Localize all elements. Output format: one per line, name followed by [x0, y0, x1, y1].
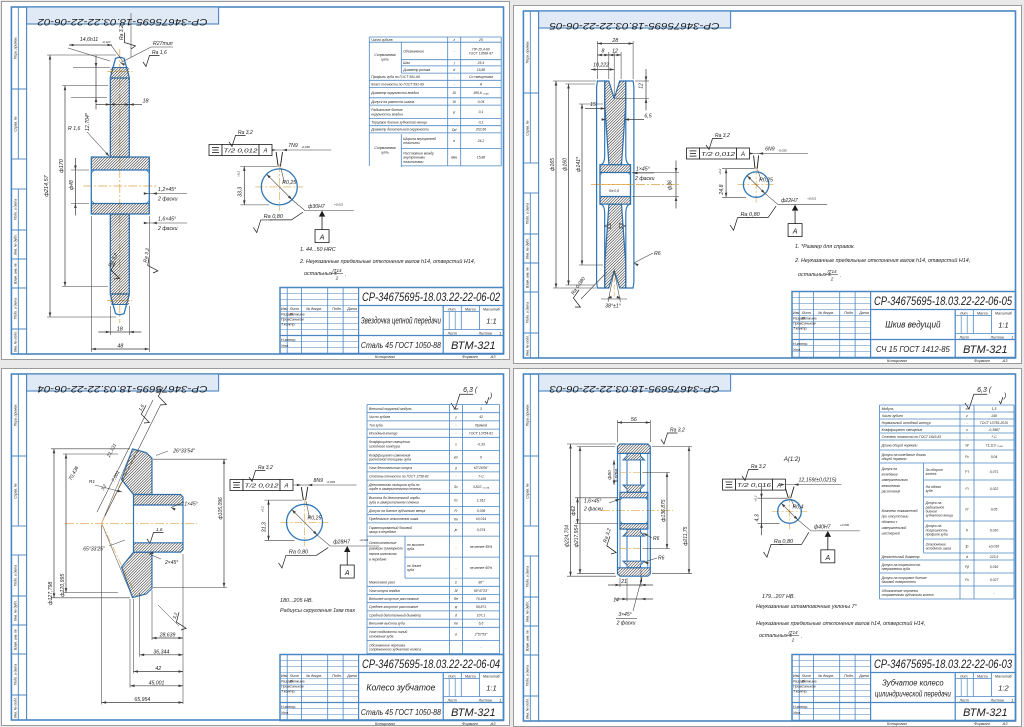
title block [280, 654, 504, 720]
svg-text:Изм: Изм [281, 307, 288, 311]
bore diameter leader [292, 509, 317, 534]
svg-text:28: 28 [611, 38, 618, 44]
bore circle [261, 169, 297, 205]
svg-text:А: А [344, 570, 350, 577]
svg-text:ф105,096: ф105,096 [218, 496, 224, 518]
svg-text:Формат: Формат [974, 721, 991, 726]
svg-text:Т/2 0,012: Т/2 0,012 [224, 149, 259, 155]
svg-text:Лит.: Лит. [447, 674, 456, 678]
svg-text:базовой поверхности: базовой поверхности [882, 580, 917, 584]
svg-text:остальных ±: остальных ± [798, 272, 831, 278]
svg-text:Торцевое биение зубчатого венц: Торцевое биение зубчатого венца [371, 121, 426, 125]
svg-text:7-C: 7-C [478, 474, 484, 478]
svg-text:z: z [965, 414, 968, 418]
svg-text:А: А [262, 149, 267, 155]
svg-text:1. 44...50 HRC: 1. 44...50 HRC [300, 247, 336, 253]
svg-text:31,3: 31,3 [262, 522, 268, 532]
svg-text:Инв. № подл.: Инв. № подл. [14, 696, 18, 717]
svg-text:Подп. и дата: Подп. и дата [14, 199, 18, 220]
bottom chain dims [152, 637, 183, 639]
rim side faces [617, 453, 619, 567]
svg-text:2: 2 [335, 276, 339, 281]
svg-text:Шкив ведущий: Шкив ведущий [885, 320, 940, 330]
svg-text:межосевого: межосевого [882, 484, 901, 488]
svg-text:12,704*: 12,704* [85, 112, 91, 131]
tolerance frame [723, 479, 736, 490]
svg-text:202,66: 202,66 [475, 128, 486, 132]
keyway slot [301, 487, 303, 500]
svg-text:IT14: IT14 [788, 630, 798, 635]
dim D214,57 [47, 54, 116, 56]
svg-text:R27тип: R27тип [153, 41, 173, 47]
sprocket lower tooth [110, 295, 129, 315]
svg-text:x: x [965, 428, 968, 432]
hub upper band [91, 157, 149, 170]
svg-text:зуба в измерительном сечении: зуба в измерительном сечении [368, 500, 419, 504]
svg-text:колеса: колеса [926, 472, 937, 476]
svg-text:14: 14 [613, 598, 619, 604]
drawing frame [11, 374, 503, 720]
svg-text:СР-34675695-18.03.22-22-06-03: СР-34675695-18.03.22-22-06-03 [549, 383, 720, 394]
svg-text:Допуск на разность шагов: Допуск на разность шагов [370, 100, 414, 104]
svg-text:59,871: 59,871 [476, 605, 486, 609]
dim 18 bottom [109, 306, 111, 335]
leader R1,6 [87, 132, 109, 156]
svg-text:Саньков: Саньков [801, 322, 815, 326]
dim 6,5 [624, 119, 643, 121]
keyway slot [276, 152, 278, 166]
svg-text:ВТМ-321: ВТМ-321 [451, 340, 496, 352]
svg-text:2 фаски: 2 фаски [157, 226, 178, 232]
svg-text:0,074: 0,074 [477, 527, 486, 531]
svg-text:0,071: 0,071 [990, 470, 999, 474]
svg-text:-0,3987: -0,3987 [988, 428, 1000, 432]
hub bottom band (hatched) [620, 524, 648, 530]
dim 18 plate [110, 104, 129, 106]
svg-text:Относительные: Относительные [369, 541, 396, 545]
cone generator lines [102, 449, 133, 523]
svg-text:.: . [345, 272, 347, 278]
svg-text:179...207 НВ.: 179...207 НВ. [762, 594, 795, 600]
svg-text:зазор в передаче: зазор в передаче [368, 530, 396, 534]
tolerance frame [230, 479, 243, 490]
svg-text:№ докум.: № докум. [818, 311, 834, 315]
chamfer 16x45 [609, 499, 620, 503]
svg-text:ф30Н7: ф30Н7 [308, 204, 326, 210]
svg-text:Т/2 0,016: Т/2 0,016 [737, 483, 772, 489]
title block [792, 292, 1016, 358]
svg-text:Радиусы скругления 1мм max: Радиусы скругления 1мм max [280, 608, 356, 614]
svg-text:цепь: цепь [381, 58, 389, 62]
svg-text:2×45°: 2×45° [164, 560, 178, 566]
svg-text:45,001: 45,001 [149, 680, 165, 686]
title block [792, 655, 1016, 721]
svg-text:Bвн: Bвн [451, 156, 457, 160]
svg-text:Лист: Лист [447, 698, 457, 702]
dim 15 [585, 108, 605, 110]
svg-text:Взам. инв. №: Взам. инв. № [14, 628, 18, 649]
svg-text:Сталь 45 ГОСТ 1050-88: Сталь 45 ГОСТ 1050-88 [361, 341, 441, 350]
svg-text:Ra 3,2: Ra 3,2 [715, 133, 730, 139]
roughness Ra1,6 [143, 56, 160, 67]
bore circle [743, 172, 768, 197]
svg-text:ф141*: ф141* [576, 156, 582, 172]
svg-text:1,6×45°: 1,6×45° [158, 217, 176, 223]
svg-text:Число зубьев: Число зубьев [369, 415, 390, 419]
svg-text:d: d [453, 68, 455, 72]
svg-text:15: 15 [590, 102, 596, 108]
svg-text:m: m [966, 407, 969, 411]
svg-text:Комплекс показателей: Комплекс показателей [882, 509, 918, 513]
svg-text:63°26'06": 63°26'06" [474, 466, 489, 470]
roughness 3,2 lower [169, 610, 189, 630]
svg-text:пластинами: пластинами [403, 160, 423, 164]
svg-text:Подп. и дата: Подп. и дата [525, 302, 529, 323]
svg-text:Ra 3,2: Ra 3,2 [751, 464, 766, 470]
svg-text:6N9: 6N9 [765, 146, 775, 152]
svg-text:Масса: Масса [977, 674, 988, 678]
svg-text:hе: hе [454, 621, 458, 625]
svg-text:Масштаб: Масштаб [995, 311, 1013, 315]
svg-text:Сопрягаемая: Сопрягаемая [374, 53, 395, 57]
svg-text:Листов: Листов [478, 698, 492, 702]
svg-text:Класс точности по ГОСТ 591-69: Класс точности по ГОСТ 591-69 [371, 82, 424, 86]
document number box (rotated) [27, 7, 219, 24]
svg-text:СР-34675695-18.03.22-22-06-04: СР-34675695-18.03.22-22-06-04 [38, 383, 208, 394]
svg-text:24,2: 24,2 [477, 139, 485, 143]
svg-text:Ra 0,80: Ra 0,80 [774, 539, 794, 545]
svg-text:Модуль: Модуль [882, 407, 894, 411]
svg-text:6,3 (: 6,3 ( [977, 387, 992, 394]
svg-text:Масса: Масса [465, 674, 476, 678]
svg-text:Ra 3,2: Ra 3,2 [670, 428, 685, 434]
gear rim bottom band (hatched) [618, 568, 651, 576]
svg-text:Инв. № дубл.: Инв. № дубл. [526, 601, 530, 622]
svg-text:jn: jn [454, 528, 458, 532]
dim D62 [575, 497, 618, 499]
svg-text:-0,110: -0,110 [102, 40, 111, 44]
svg-text:колебание: колебание [882, 473, 898, 477]
svg-text:38°±1°: 38°±1° [605, 304, 621, 310]
svg-text:Утв.: Утв. [281, 344, 289, 348]
svg-text:+0,030: +0,030 [840, 523, 850, 527]
svg-text:Справ. №: Справ. № [525, 120, 529, 136]
svg-text:1:1: 1:1 [486, 683, 496, 692]
chamfer 1x45 [632, 172, 654, 174]
svg-text:R1: R1 [89, 479, 95, 485]
left margin stamp boxes [17, 7, 19, 89]
svg-text:2. Неуказанные предельные откл: 2. Неуказанные предельные отклонения вал… [299, 258, 475, 265]
svg-text:Диаметр окружности впадин: Диаметр окружности впадин [370, 91, 419, 95]
dim D160 [565, 83, 595, 85]
svg-text:+0,021: +0,021 [334, 203, 344, 207]
svg-text:Длина общей нормали: Длина общей нормали [881, 443, 918, 447]
chamfer 3x45 [633, 577, 642, 611]
svg-text:Масса: Масса [977, 311, 988, 315]
bore diameter leader [747, 176, 765, 194]
svg-text:цепь: цепь [381, 151, 389, 155]
drawing frame [11, 7, 503, 354]
svg-text:Дата: Дата [346, 674, 356, 678]
svg-text:1,6×45°: 1,6×45° [584, 499, 601, 505]
svg-text:Профиль зуба по ГОСТ 591-69: Профиль зуба по ГОСТ 591-69 [371, 75, 420, 79]
svg-text:Изм: Изм [281, 674, 288, 678]
hub (upper band hatched) [600, 165, 631, 173]
svg-text:ВТМ-321: ВТМ-321 [963, 707, 1008, 719]
svg-text:1. *Размер для справок.: 1. *Размер для справок. [795, 244, 855, 250]
svg-text:Коэффициент смещения: Коэффициент смещения [882, 428, 923, 432]
svg-text:А: А [776, 483, 781, 489]
svg-text:15,88: 15,88 [477, 68, 486, 72]
gear rim top band (hatched) [618, 444, 651, 453]
svg-text:Перв. примен.: Перв. примен. [526, 404, 530, 427]
svg-text:223,5: 223,5 [989, 555, 999, 559]
svg-text:Справ. №: Справ. № [526, 483, 530, 499]
svg-text:ф211,75: ф211,75 [683, 526, 689, 545]
svg-text:3×45°: 3×45° [618, 612, 631, 618]
svg-text:Fv: Fv [965, 455, 969, 459]
svg-text:Число зубьев: Число зубьев [882, 414, 903, 418]
svg-text:6,3 (: 6,3 ( [463, 387, 478, 394]
left margin stamp boxes [529, 11, 531, 93]
svg-text:Инв. № дубл.: Инв. № дубл. [14, 600, 18, 621]
svg-text:1:1: 1:1 [998, 321, 1008, 330]
svg-text:А3: А3 [490, 354, 497, 359]
svg-text:2: 2 [829, 277, 833, 282]
bore [133, 505, 135, 543]
svg-text:fm: fm [454, 517, 458, 521]
svg-text:ф224,704: ф224,704 [565, 525, 571, 547]
svg-text:Лист: Лист [800, 311, 810, 315]
svg-text:7N9: 7N9 [288, 143, 298, 149]
svg-text:-0,33: -0,33 [477, 442, 485, 446]
svg-text:Угол делительного конуса: Угол делительного конуса [369, 466, 412, 470]
svg-text:пластины: пластины [403, 141, 420, 145]
svg-text:1,5: 1,5 [992, 407, 997, 411]
svg-text:ф48: ф48 [69, 180, 75, 190]
svg-text:12: 12 [612, 49, 618, 55]
svg-text:δ: δ [455, 466, 457, 470]
svg-text:окружности впадин: окружности впадин [371, 112, 403, 116]
svg-text:Листов: Листов [990, 698, 1004, 702]
svg-text:СЧ 15 ГОСТ 1412-85: СЧ 15 ГОСТ 1412-85 [876, 345, 950, 354]
svg-text:Копировал: Копировал [887, 721, 908, 726]
svg-text:Сопрягаемая: Сопрягаемая [374, 146, 395, 150]
hub lower band hatched [600, 197, 631, 205]
svg-text:Копировал: Копировал [375, 354, 396, 359]
taper marks on web [604, 224, 610, 229]
tolerance frame [209, 145, 222, 156]
svg-text:14,6h11: 14,6h11 [80, 37, 98, 43]
svg-text:d: d [966, 555, 968, 559]
svg-text:18: 18 [143, 99, 150, 105]
svg-text:149: 149 [991, 414, 997, 418]
svg-text:Колесо зубчатое: Колесо зубчатое [366, 682, 435, 692]
svg-text:25,4: 25,4 [477, 61, 485, 65]
svg-text:Лит.: Лит. [958, 311, 967, 315]
svg-text:№ докум.: № докум. [306, 674, 322, 678]
roughness marks lower [103, 252, 129, 281]
svg-text:Копировал: Копировал [887, 358, 908, 363]
hub top band (hatched) [620, 492, 648, 498]
dim D127,798 [51, 447, 130, 449]
keyway detail view [281, 521, 329, 523]
svg-text:±0,014: ±0,014 [476, 517, 486, 521]
sprocket upper plate (hatched) [110, 78, 129, 157]
svg-text:Взам. инв. №: Взам. инв. № [14, 263, 18, 284]
tolerance frame [686, 148, 699, 159]
svg-text:Справ. №: Справ. № [14, 116, 18, 132]
svg-text:СР-34675695-18.03.22-22-06-04: СР-34675695-18.03.22-22-06-04 [362, 659, 500, 671]
svg-text:Исходный контур: Исходный контур [369, 431, 397, 435]
svg-text:Масштаб: Масштаб [483, 674, 501, 678]
svg-text:+0,2: +0,2 [236, 171, 240, 177]
svg-text:): ) [489, 393, 492, 400]
pulley web section lower [604, 204, 625, 288]
svg-text:hc: hc [454, 498, 458, 502]
svg-text:F"i: F"i [965, 470, 969, 474]
dims 8 / 12 [607, 52, 609, 79]
svg-text:А: А [791, 229, 797, 236]
svg-text:ВТМ-321: ВТМ-321 [451, 707, 496, 719]
svg-text:А3: А3 [490, 721, 497, 726]
svg-text:Т/2 0,012: Т/2 0,012 [245, 483, 280, 489]
svg-text:обкатки с: обкатки с [882, 520, 898, 524]
svg-text:7-C: 7-C [991, 435, 997, 439]
svg-text:.: . [840, 273, 842, 279]
svg-text:Формат: Формат [974, 358, 991, 363]
svg-text:xт: xт [453, 455, 459, 459]
svg-text:Утв.: Утв. [793, 711, 801, 715]
svg-text:R0,25: R0,25 [759, 178, 773, 184]
svg-text:ф136,875: ф136,875 [661, 499, 667, 521]
svg-text:Т/2 0,012: Т/2 0,012 [701, 152, 736, 158]
keyway detail view [737, 184, 774, 186]
dim D217,954 [577, 446, 615, 448]
svg-text:6,5: 6,5 [644, 114, 651, 120]
svg-text:fp: fp [966, 545, 969, 549]
svg-text:Ra 0,80: Ra 0,80 [264, 214, 284, 220]
svg-text:размеры суммарного: размеры суммарного [368, 546, 403, 550]
sprocket lower plate (hatched) [110, 214, 129, 294]
svg-text:А: А [739, 152, 744, 158]
svg-text:расчетной толщины зуба: расчетной толщины зуба [368, 457, 411, 461]
svg-text:Утв.: Утв. [793, 348, 801, 352]
svg-text:остальных ±: остальных ± [759, 633, 792, 639]
svg-text:Лист: Лист [959, 698, 969, 702]
svg-text:Делительный диаметр: Делительный диаметр [881, 555, 920, 559]
svg-text:Вяткина: Вяткина [290, 313, 305, 317]
svg-text:исходного шага: исходного шага [926, 547, 951, 551]
svg-text:Утв.: Утв. [281, 711, 289, 715]
sprocket upper tooth [110, 57, 129, 77]
svg-text:Подп.: Подп. [844, 674, 854, 678]
svg-text:Инв. № подл.: Инв. № подл. [526, 698, 530, 719]
roughness Ra3,2 left rotated [600, 528, 623, 556]
svg-text:Н.контр.: Н.контр. [281, 338, 296, 342]
roughness top [661, 433, 678, 444]
svg-text:d: d [455, 613, 457, 617]
svg-text:Предельные отклонения шага: Предельные отклонения шага [369, 517, 418, 521]
svg-text:А(1:2): А(1:2) [783, 457, 800, 463]
svg-text:Допуск на биение зубчатого вен: Допуск на биение зубчатого венца [368, 509, 425, 513]
svg-text:0,1: 0,1 [479, 110, 484, 114]
dim 14,6h11 [68, 48, 110, 61]
parameter table [880, 404, 1014, 406]
svg-text:Масштаб: Масштаб [995, 674, 1013, 678]
angle 38 [608, 271, 614, 302]
svg-text:1:2: 1:2 [998, 684, 1009, 693]
dims 21 / 14 bottom [619, 578, 621, 587]
svg-text:СР-34675695-18.03.22-22-06-03: СР-34675695-18.03.22-22-06-03 [874, 659, 1012, 671]
svg-text:зубе: зубе [925, 489, 933, 493]
svg-text:2 фаски: 2 фаски [634, 176, 655, 182]
svg-text:измерительной: измерительной [882, 526, 907, 530]
svg-text:Подп.: Подп. [844, 311, 854, 315]
svg-text:+0,2: +0,2 [261, 506, 265, 512]
axis centerline [601, 510, 673, 512]
svg-text:Неуказанные предельные отклоне: Неуказанные предельные отклонения валов … [756, 620, 925, 627]
svg-text:2°57'53": 2°57'53" [474, 632, 488, 636]
dim D211,75 [652, 446, 692, 448]
svg-text:48: 48 [117, 344, 124, 350]
leaders R6 [643, 533, 652, 538]
svg-text:Н.контр.: Н.контр. [793, 705, 808, 709]
svg-text:ВТМ-321: ВТМ-321 [963, 344, 1008, 356]
svg-text:ф214,57: ф214,57 [44, 174, 50, 196]
dim 12 depth [635, 80, 649, 82]
svg-text:зубчатого венца: зубчатого венца [925, 514, 953, 518]
svg-text:Формат: Формат [462, 721, 479, 726]
dim 28 [596, 41, 598, 79]
svg-text:2 фаски: 2 фаски [157, 197, 178, 203]
svg-text:Степень точности по ГОСТ 1643-: Степень точности по ГОСТ 1643-81 [882, 435, 942, 439]
svg-text:Масштаб: Масштаб [483, 307, 501, 311]
svg-text:Копировал: Копировал [375, 721, 396, 726]
svg-text:не менее 55%: не менее 55% [470, 545, 492, 549]
svg-text:59°47'23": 59°47'23" [474, 588, 489, 592]
svg-text:IT14: IT14 [332, 268, 342, 273]
svg-text:0,04: 0,04 [478, 100, 485, 104]
svg-text:Шаг: Шаг [403, 61, 410, 65]
svg-text:Т.контр.: Т.контр. [281, 689, 296, 693]
bevel rim lower (hatched) [122, 552, 153, 598]
parameter table [369, 36, 501, 38]
svg-text:Ra 3,2: Ra 3,2 [238, 130, 253, 136]
svg-text:42: 42 [479, 415, 483, 419]
svg-text:измерительного: измерительного [882, 478, 908, 482]
svg-text:Лит.: Лит. [959, 674, 968, 678]
drawing frame [523, 11, 1015, 358]
dim D48 [71, 169, 89, 171]
svg-text:ф160: ф160 [562, 158, 568, 171]
bore [619, 498, 621, 524]
svg-text:сопряженного зубчатого колеса: сопряженного зубчатого колеса [882, 593, 934, 597]
svg-text:в передаче: в передаче [369, 557, 386, 561]
svg-text:2 фаски: 2 фаски [583, 507, 603, 513]
svg-text:6 отв.: 6 отв. [614, 468, 620, 483]
svg-text:ф28Н7: ф28Н7 [333, 539, 351, 545]
svg-text:Степень точности по ГОСТ 1758-: Степень точности по ГОСТ 1758-81 [369, 474, 429, 478]
svg-text:ГОСТ 13754-81: ГОСТ 13754-81 [469, 431, 493, 435]
dim D170 [62, 85, 108, 87]
svg-text:25: 25 [478, 38, 483, 42]
svg-text:Взам. инв. №: Взам. инв. № [526, 630, 530, 651]
svg-text:0,010: 0,010 [990, 528, 999, 532]
dim 48 bottom [90, 216, 92, 352]
svg-text:0,036: 0,036 [477, 509, 486, 513]
svg-text:Dd: Dd [452, 128, 456, 132]
